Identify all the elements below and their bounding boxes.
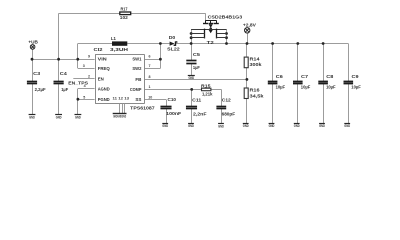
value 300k of R14 [250,62,263,67]
svg-text:100nF: 100nF [166,111,181,116]
label L1 [111,36,117,41]
svg-text:102: 102 [120,15,129,20]
wire C12 lower to ground [221,109,223,124]
junction T2 left pin b [190,36,193,39]
svg-text:GND: GND [189,76,195,80]
svg-text:2,2µF: 2,2µF [35,87,46,92]
ground below C6 [269,124,275,129]
svg-text:10µF: 10µF [326,84,336,89]
junction SW1/SW2 tie [159,58,162,61]
junction +UB / C3 / rail [31,58,34,61]
pin number 2 (EN) [88,75,90,79]
label T2 [207,40,215,45]
value 1µF of C5 [193,65,200,70]
svg-text:10µF: 10µF [351,84,361,89]
capacitor C8 [318,82,328,84]
svg-text:C12: C12 [222,97,232,102]
ground below C3 [29,115,36,120]
pin name VIN [98,56,107,61]
svg-text:GNDGNDGND: GNDGNDGND [113,114,126,118]
wire C8 column [323,44,325,124]
svg-text:C10: C10 [168,97,177,102]
wire FREQ pin 3 [78,68,95,70]
wire top loop from C4 column through R17 to T2 gate [59,13,206,20]
svg-text:3,3UH: 3,3UH [110,47,128,52]
pin number 7 (SW2) [149,64,151,68]
junction SW node on rail [159,42,162,45]
value 34,5k of R16 [250,93,265,98]
resistor R16 [244,88,248,99]
svg-text:L1: L1 [111,36,117,41]
pin name SW1 [132,56,142,61]
svg-text:SL22: SL22 [167,46,180,51]
IC bottom PGND stub 12 [122,104,124,114]
pin name AGND [98,86,110,91]
capacitor C11 [186,107,197,109]
value 2,2µF of C3 [35,87,46,92]
resistor R15 [202,88,211,91]
svg-text:1µF: 1µF [61,87,68,92]
svg-text:R17: R17 [121,6,128,11]
pin number 10 (SS) [148,95,152,99]
svg-text:CI2: CI2 [94,47,104,52]
svg-text:2: 2 [88,75,90,79]
wire AGND/PGND down to ground [77,89,79,115]
wire EN pin 2 stub (net EN_TPS) [73,78,94,80]
value 10µF of C8 [326,84,336,89]
svg-text:10µF: 10µF [301,84,311,89]
svg-text:2,2nF: 2,2nF [193,111,207,116]
ground below AGND/PGND [75,115,82,120]
diode D0 (schottky SL22) [170,41,177,46]
wire SW1 pin 6 [144,59,160,61]
resistor R17 [120,12,131,15]
capacitor C7 [293,82,303,84]
svg-text:GND: GND [269,124,275,128]
svg-text:C7: C7 [301,74,309,79]
wire SW2 pin 7 [144,68,160,70]
label R14 [250,57,261,62]
inductor L1 [112,41,127,45]
wire PGND pin 5 [78,99,95,101]
svg-text:1,21k: 1,21k [202,92,213,97]
wire AGND pin 4 [78,88,95,90]
wire C10 lower to ground [166,109,168,124]
junction FB divider tap [246,78,249,81]
capacitor C10 [160,107,171,109]
svg-text:C9: C9 [352,74,360,79]
junction L1 feed / rail / FREQ [76,58,79,61]
svg-text:10µF: 10µF [276,84,286,89]
ground below R16 [243,124,249,129]
ground below C4 [55,115,62,120]
wire C3 branch [32,59,34,115]
svg-text:680pF: 680pF [222,111,236,116]
junction COMP / C11 / R15 [190,88,193,91]
svg-text:300k: 300k [250,62,263,67]
wire C4 branch [58,59,60,115]
wire output rail +2,8V [176,43,348,45]
capacitor C6 [268,82,278,84]
label C3 [33,71,41,76]
supply +UB [30,45,35,50]
label C4 [60,71,68,76]
label R16 [250,88,261,93]
capacitor C5 [186,61,196,64]
pin name COMP [130,87,142,92]
transistor T2 (P-MOSFET) [191,20,226,38]
svg-text:D0: D0 [169,35,176,40]
wire C11 column [191,89,193,123]
svg-text:FB: FB [135,77,141,82]
junction C8 on rail [322,42,325,45]
svg-text:T2: T2 [207,40,215,45]
label +UB [28,39,38,44]
junction T2 left pins / C5 on rail [190,42,193,45]
svg-text:R14: R14 [250,57,261,62]
ground below C12 [218,124,224,129]
junction C6 on rail [271,42,274,45]
pin numbers 11 12 13 (PGND pads) [113,97,130,101]
value SL22 of D0 [167,46,180,51]
svg-text:C6: C6 [276,74,284,79]
label D0 [169,35,176,40]
value 1µF of C4 [61,87,68,92]
capacitor C4 [54,82,64,84]
ground below C5 [188,76,195,80]
IC CI2 box (TPS61087 boost converter) [95,54,144,104]
pin number 1 (COMP) [149,85,151,89]
svg-text:8: 8 [149,75,151,79]
wire SW tie vertical [160,44,162,69]
junction +2,8V / R14 on rail [246,42,249,45]
wire +2,8V flag / R14 divider column [247,33,248,123]
wire L1 feed / FREQ column [78,44,113,69]
svg-text:34,5k: 34,5k [250,93,265,98]
svg-text:+2,8V: +2,8V [243,23,257,28]
wire C7 column [297,44,299,124]
svg-text:GND: GND [218,124,224,128]
ground below C7 [294,124,300,129]
svg-text:GND: GND [188,124,194,128]
svg-text:CSD2B4B1G3: CSD2B4B1G3 [208,14,243,19]
label C5 [193,52,201,57]
wire FB pin 8 to divider [144,79,246,81]
IC bottom PGND stub 13 [124,104,126,114]
label C7 [301,74,309,79]
ground below C8 [319,124,325,129]
wire C5 / T2 left-pin column [191,29,193,75]
value 102 of R17 [120,15,129,20]
wire C9 column lower [348,84,350,124]
label R15 [201,83,211,88]
wire COMP pin 1 [144,89,201,91]
svg-text:FREQ: FREQ [98,66,111,71]
svg-text:SW1: SW1 [132,56,142,61]
pin name SS [135,97,141,102]
junction C4 / top loop / rail [57,58,60,61]
value 10µF of C9 [351,84,361,89]
value 2,2nF of C11 [193,111,207,116]
svg-text:R15: R15 [201,83,211,88]
svg-text:9: 9 [88,55,90,59]
value TPS61087 [130,106,155,111]
wire VIN rail [32,59,95,61]
label C11 [192,98,202,103]
value CSD2B4B1G3 of T2 [208,14,243,19]
pin number 3 (FREQ) [83,64,85,68]
label C6 [276,74,284,79]
pin name FB [135,77,141,82]
capacitor C12 [216,107,226,109]
svg-text:GND: GND [319,124,325,128]
svg-text:C11: C11 [192,98,202,103]
value 680pF of C12 [222,111,236,116]
supply +2,8V [245,28,250,33]
svg-text:EN: EN [98,77,104,82]
value 3,3UH of L1 [110,47,128,52]
label C8 [326,74,334,79]
wire T2 right-pin column [226,29,228,43]
svg-text:1µF: 1µF [193,65,200,70]
value 10µF of C6 [276,84,286,89]
svg-text:COMP: COMP [130,87,142,92]
ground below C9 [344,124,350,129]
junction T2 right column on rail [225,42,228,45]
junction T2 right pin a [225,32,228,35]
svg-text:C3: C3 [33,71,41,76]
pin number 8 (FB) [149,75,151,79]
junction T2 right pin b [225,36,228,39]
wire rail end corner down to C9 [348,44,350,82]
capacitor C3 [27,82,37,84]
ground below C10 [162,124,168,129]
pin name SW2 [132,66,142,71]
svg-text:5: 5 [83,95,85,99]
pin number 4 (AGND) [84,84,86,88]
junction PGND tie [77,98,80,101]
wire vertical C4 column top loop to VIN rail [58,13,60,59]
label CI2 [94,47,104,52]
svg-text:EN_TPS: EN_TPS [68,80,88,85]
svg-text:GND: GND [243,124,249,128]
IC bottom PGND stub 11 [119,104,121,114]
svg-text:VIN: VIN [98,56,107,61]
wire L1 to SW node to D0 anode [127,43,169,45]
wire SS pin 10 to C10 [144,100,166,107]
label R17 [121,6,128,11]
svg-text:6: 6 [149,55,151,59]
pin number 5 (PGND) [83,95,85,99]
svg-text:+UB: +UB [28,39,38,44]
svg-text:TPS61087: TPS61087 [130,106,155,111]
svg-text:GND: GND [75,115,81,119]
ground IC pads 11 12 13 [113,114,127,119]
pin name PGND [98,97,110,102]
value 10µF of C7 [301,84,311,89]
svg-text:7: 7 [149,64,151,68]
pin number 6 (SW1) [149,55,151,59]
svg-text:C8: C8 [326,74,334,79]
svg-text:SW2: SW2 [132,66,142,71]
junction T2 left pin a [190,32,193,35]
svg-text:3: 3 [83,64,85,68]
junction C7 on rail [296,42,299,45]
capacitor C9 [344,82,354,84]
svg-text:C4: C4 [60,71,68,76]
label C12 [222,97,232,102]
value 1,21k of R15 [202,92,213,97]
pin name EN [98,77,104,82]
svg-text:SS: SS [135,97,141,102]
ground below C11 [188,124,194,129]
svg-text:AGND: AGND [98,86,110,91]
wire +UB stub down to VIN rail [32,49,34,59]
svg-text:R16: R16 [250,88,261,93]
svg-text:GND: GND [294,124,300,128]
svg-text:11 12 13: 11 12 13 [113,97,130,101]
svg-text:PGND: PGND [98,97,110,102]
svg-text:C5: C5 [193,52,201,57]
resistor R14 [244,57,248,68]
label C10 [168,97,177,102]
svg-text:10: 10 [148,95,152,99]
pin number 9 (VIN) [88,55,90,59]
svg-text:1: 1 [149,85,151,89]
pin name FREQ [98,66,111,71]
label +2,8V [243,23,257,28]
svg-text:GND: GND [162,124,168,128]
svg-text:GND: GND [344,124,350,128]
wire C6 column [272,44,274,124]
label C9 [352,74,360,79]
svg-text:GND: GND [56,115,62,119]
net label EN_TPS [68,80,88,85]
wire R15 to C12 [211,89,221,106]
value 100nF of C10 [166,111,181,116]
svg-text:GND: GND [29,115,35,119]
